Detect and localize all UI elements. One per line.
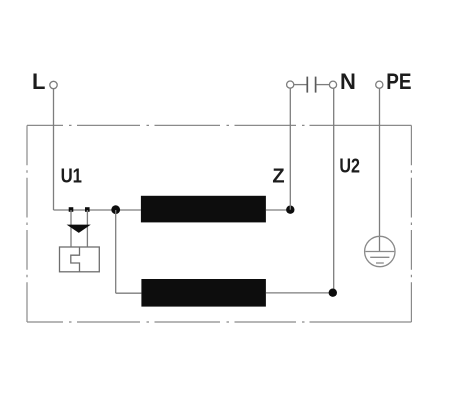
winding 1 (main): [141, 196, 266, 223]
junction dot (square) right of thermal protector: [85, 207, 90, 212]
wire L down to U1 node: [53, 89, 55, 210]
thermal protector triangle: [67, 225, 91, 233]
wire to winding 2: [116, 292, 142, 294]
node Z junction dot: [286, 206, 294, 214]
svg-text:L: L: [32, 69, 45, 94]
wire N down to U2 node: [333, 88, 335, 292]
svg-text:Z: Z: [272, 166, 284, 188]
wire PE down to earth: [379, 88, 381, 251]
earth bar short: [376, 262, 384, 264]
node U2 junction dot: [329, 289, 337, 297]
enclosure border left (dash-dot): [26, 125, 28, 322]
winding 2 (auxiliary): [141, 279, 266, 307]
svg-text:N: N: [340, 69, 356, 94]
svg-text:U2: U2: [339, 156, 360, 178]
wire Z up to capacitor: [289, 88, 291, 210]
enclosure border top (dash-dot): [27, 124, 411, 126]
wire winding 2 to node U2: [266, 292, 333, 294]
capacitor C lead right: [316, 84, 329, 86]
thermal protector contact step: [71, 247, 80, 272]
enclosure border right (dash-dot): [410, 125, 412, 322]
capacitor C lead left: [294, 84, 307, 86]
capacitor C plate right: [315, 77, 317, 93]
terminal N: [329, 81, 336, 88]
wire protector right leg: [86, 210, 88, 247]
wire winding 1 to node Z: [266, 209, 290, 211]
wire node A down: [115, 210, 117, 293]
thermal protector box: [60, 247, 100, 272]
node A junction dot: [111, 205, 120, 214]
capacitor left terminal: [287, 81, 294, 88]
junction dot (square) left of thermal protector: [69, 207, 74, 212]
enclosure border bottom (dash-dot): [27, 321, 411, 323]
earth bar long: [365, 251, 394, 253]
wire U1 horizontal to winding 1: [54, 209, 141, 211]
earth bar middle: [370, 256, 389, 258]
wire protector left leg: [70, 210, 72, 247]
svg-text:PE: PE: [386, 69, 411, 94]
svg-text:U1: U1: [61, 166, 82, 188]
capacitor C plate left: [306, 77, 308, 93]
terminal PE: [376, 81, 383, 88]
protective earth circle: [365, 236, 395, 266]
terminal L: [50, 81, 57, 88]
